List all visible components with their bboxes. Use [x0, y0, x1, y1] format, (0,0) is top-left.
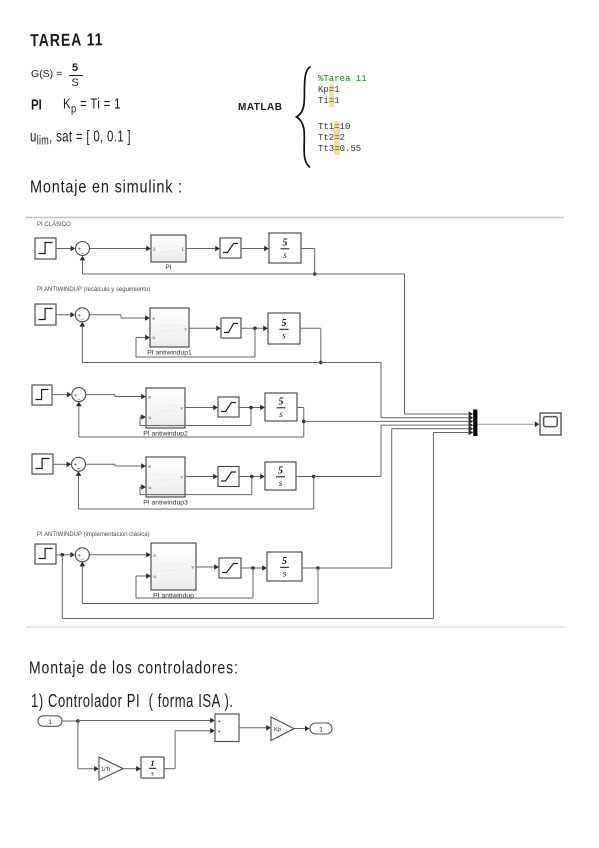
wire sat2 to plant2: [241, 326, 268, 332]
wire sum2 to subsystem e: [89, 315, 150, 321]
handwritten equation G(s) = 5/s: [31, 68, 62, 80]
node sat5 output: [251, 566, 255, 570]
wire sum1 to PI: [90, 246, 151, 252]
wire integrator to sum: [164, 728, 215, 769]
mux block: [473, 410, 477, 437]
node row2 output: [319, 361, 323, 365]
saturation block row5: [219, 558, 241, 578]
wire u feedback row4: [140, 477, 252, 495]
step source row1: [35, 238, 56, 259]
wire branch down to gain: [78, 721, 99, 772]
wire inport to node: [62, 720, 78, 722]
subsystem PI antiwindup3: [143, 457, 188, 507]
plant transfer fcn 5/s row3: [265, 393, 297, 421]
wire sum to gain Kp: [239, 725, 271, 731]
saturation block row1: [220, 238, 241, 258]
node sat3 output: [249, 406, 253, 410]
wire step1 to sum1: [56, 246, 75, 252]
wire mux to scope: [477, 421, 539, 427]
handwritten ulim,sat = [0, 0.1]: [30, 129, 131, 147]
wire u feedback row5: [136, 568, 253, 598]
subsystem PI antiwindup1: [147, 308, 192, 357]
wire sat4 to plant4: [239, 474, 265, 480]
wire gain to integrator: [123, 766, 141, 772]
handwritten MATLAB label: [238, 102, 282, 113]
wire tap row5 to mux: [318, 426, 473, 568]
saturation block row3: [218, 397, 239, 417]
integrator 1/s: [141, 757, 164, 778]
handwritten title TAREA 11: [30, 28, 104, 49]
sum block: [215, 714, 239, 742]
svg-text:s: s: [151, 770, 154, 778]
svg-text:+: +: [218, 719, 221, 725]
inport 1: [38, 716, 62, 727]
wire feedback row1: [80, 256, 315, 274]
wire step4 to sum4: [53, 462, 71, 468]
node sat4 output: [250, 475, 254, 479]
svg-text:1: 1: [151, 759, 155, 768]
svg-text:1: 1: [319, 726, 323, 733]
wire plant2 output to node: [300, 328, 321, 362]
wire Kp to outport: [294, 726, 310, 732]
handwritten heading Montaje en simulink: [30, 178, 183, 197]
wire sat3 to plant3: [239, 405, 265, 411]
wire subsystem v to sat5: [196, 564, 219, 570]
wire subsystem1 v to sat2: [189, 326, 221, 332]
node row1 output: [313, 272, 317, 276]
wire feedback row3: [76, 402, 304, 437]
wire sat5 to plant5: [241, 565, 267, 571]
wire tap row1 to mux: [315, 274, 474, 417]
handwritten PI Kp = Ti = 1: [31, 98, 42, 113]
wire subsystem3 v to sat4: [185, 474, 218, 480]
node sat2 output: [253, 327, 257, 331]
plant transfer fcn 5/s row2: [268, 313, 300, 344]
wire plant3 output to node: [297, 408, 304, 438]
saturation block row2: [221, 318, 241, 338]
sum junction row2: [75, 308, 89, 323]
wire tap row2 to mux: [321, 363, 473, 421]
subsystem PI antiwindup2: [143, 388, 188, 438]
screenshot bottom border: [26, 626, 564, 628]
wire u feedback row3: [140, 408, 251, 426]
wire sum5 to subsystem e: [89, 552, 151, 558]
handwritten subheading 1) Controlador PI (forma ISA): [31, 690, 234, 711]
svg-text:+: +: [218, 730, 221, 736]
PI controller block row1: [151, 235, 186, 271]
wire direct path to sum: [78, 718, 215, 724]
wire feedback row5: [80, 562, 319, 604]
wire feedback row4: [76, 471, 314, 509]
wire step2 to sum2: [56, 312, 75, 318]
sum junction row4: [72, 457, 86, 472]
plant transfer fcn 5/s row1: [269, 233, 301, 263]
plant transfer fcn 5/s row5: [267, 552, 302, 581]
node row3 output: [302, 420, 306, 424]
wire step5 to sum5: [56, 552, 75, 558]
sum junction row5: [75, 548, 89, 563]
wire sum3 to subsystem e: [86, 394, 146, 400]
node row5 output: [316, 566, 320, 570]
wire PI to saturation1: [186, 246, 220, 252]
step source row3: [32, 385, 52, 405]
wire plant1 output to node: [301, 249, 315, 275]
wire row3 output to mux: [304, 419, 473, 425]
plant transfer fcn 5/s row4: [265, 462, 296, 490]
wire sat1 to plant1: [241, 246, 269, 252]
screenshot top border: [26, 217, 564, 219]
step source row4: [32, 454, 53, 474]
wire u feedback row2: [136, 328, 255, 357]
sum junction row3: [72, 388, 86, 403]
subsystem PI antiwindup: [151, 543, 196, 600]
wire feedback row2: [80, 322, 321, 363]
svg-text:1: 1: [48, 719, 52, 726]
step source row5: [35, 544, 56, 564]
wire step3 to sum3: [52, 392, 72, 398]
outport 1: [310, 723, 332, 734]
step source row2: [35, 304, 56, 325]
saturation block row4: [218, 467, 239, 487]
gain 1/Ti: [99, 757, 123, 780]
wire tap row4 to mux: [314, 422, 474, 476]
svg-text:Kp: Kp: [274, 727, 281, 733]
wire reference tap to mux: [62, 430, 473, 619]
wire sum4 to subsystem e: [86, 463, 146, 469]
gain Kp: [271, 717, 294, 741]
wire plant5 output to node: [302, 567, 318, 569]
MATLAB code block: [318, 74, 367, 108]
svg-text:1/Ti: 1/Ti: [101, 767, 110, 773]
wire subsystem2 v to sat3: [185, 405, 218, 411]
wire plant4 output to node: [296, 476, 314, 478]
sum junction row1: [76, 242, 90, 257]
node branch: [76, 719, 80, 723]
node row4 output: [312, 475, 316, 479]
scope block: [540, 413, 561, 435]
node step5 output: [61, 553, 65, 557]
